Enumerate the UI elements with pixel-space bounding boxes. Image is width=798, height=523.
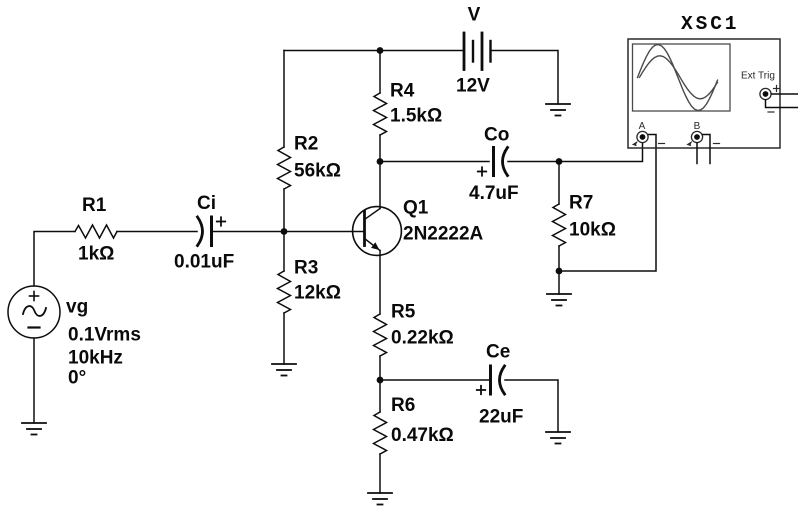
svg-text:V: V: [468, 5, 481, 26]
svg-text:Ext Trig: Ext Trig: [741, 71, 775, 82]
svg-text:R5: R5: [391, 302, 416, 323]
oscilloscope XSC1: [628, 13, 780, 148]
svg-text:0.22kΩ: 0.22kΩ: [391, 328, 454, 349]
node collector junction: [377, 158, 384, 165]
svg-text:0.01uF: 0.01uF: [174, 252, 234, 273]
svg-text:1kΩ: 1kΩ: [78, 244, 114, 265]
capacitor Ce 22uF: [477, 342, 524, 428]
wire scope B stubs: [697, 135, 710, 164]
capacitor Co 4.7uF: [469, 125, 519, 205]
svg-text:1.5kΩ: 1.5kΩ: [390, 106, 442, 127]
node output junction: [556, 158, 563, 165]
wire Ce to ground: [505, 380, 558, 432]
wire R4 column: [379, 51, 381, 94]
wire R3 column: [283, 232, 285, 272]
ground (Ce): [546, 432, 570, 444]
svg-text:12V: 12V: [456, 76, 490, 97]
svg-text:R4: R4: [390, 81, 415, 102]
wire R2 to base node: [283, 189, 285, 232]
wire collector node to Co: [380, 161, 489, 163]
wire emitter node to Ce: [380, 379, 489, 381]
svg-text:22uF: 22uF: [479, 407, 523, 428]
wire R7 top: [558, 162, 560, 205]
svg-text:R6: R6: [391, 395, 415, 416]
battery V: [456, 5, 491, 97]
transistor Q1 2N2222A: [353, 198, 484, 256]
svg-text:0°: 0°: [68, 368, 86, 389]
resistor R6 0.47k: [374, 395, 454, 454]
node base junction: [281, 228, 288, 235]
wire R7 to bottom node: [558, 246, 560, 271]
wire scope A minus return: [559, 135, 656, 272]
wire R1 to Ci: [117, 231, 197, 233]
resistor R3 12k: [278, 258, 341, 314]
svg-text:R7: R7: [569, 193, 593, 214]
source vg: [8, 286, 141, 389]
wire vg top: [34, 232, 75, 287]
wire bottom node to ground: [558, 271, 560, 294]
wire R4 to collector node: [379, 135, 381, 162]
svg-text:2N2222A: 2N2222A: [403, 224, 484, 245]
node rail/R4 junction: [377, 47, 384, 54]
svg-text:12kΩ: 12kΩ: [294, 283, 341, 304]
scope trace small: [640, 56, 718, 99]
wire base: [212, 231, 364, 233]
wire R5 to emitter node: [379, 356, 381, 380]
ground (R7): [547, 294, 571, 306]
wire R3 to ground: [283, 313, 285, 364]
wire Co to output node: [508, 161, 559, 163]
scope terminal Ext Trig: [741, 71, 780, 113]
wire battery to ground: [492, 51, 559, 105]
svg-text:Q1: Q1: [403, 198, 429, 219]
node R7 bottom junction: [556, 268, 563, 275]
resistor R2 56k: [278, 134, 341, 190]
resistor R4 1.5k: [374, 81, 443, 136]
wire collector: [379, 162, 381, 209]
svg-text:0.47kΩ: 0.47kΩ: [391, 425, 454, 446]
svg-text:10kHz: 10kHz: [68, 348, 123, 369]
svg-text:vg: vg: [66, 297, 88, 318]
wire R2 column: [283, 51, 285, 148]
resistor R1 1k: [75, 195, 117, 265]
resistor R7 10k: [553, 193, 616, 247]
wire ext trig plus: [772, 93, 798, 95]
svg-text:Ci: Ci: [197, 193, 216, 214]
capacitor Ci 0.01uF: [174, 193, 234, 273]
svg-text:4.7uF: 4.7uF: [469, 183, 519, 204]
ground (R6): [368, 493, 392, 505]
wire top rail: [284, 50, 463, 52]
ground (vg): [22, 423, 46, 435]
scope trace large: [638, 45, 718, 111]
wire R6 to ground: [379, 454, 381, 493]
node emitter junction: [377, 377, 384, 384]
wire emitter: [379, 251, 381, 315]
svg-text:A: A: [639, 121, 646, 132]
wire vg to ground: [33, 338, 35, 423]
svg-text:B: B: [694, 121, 701, 132]
svg-text:10kΩ: 10kΩ: [569, 220, 616, 241]
wire R6 top: [379, 380, 381, 412]
scope terminal A: [633, 121, 665, 146]
svg-text:R3: R3: [294, 258, 318, 279]
svg-text:XSC1: XSC1: [681, 13, 739, 35]
svg-text:0.1Vrms: 0.1Vrms: [68, 325, 141, 346]
scope terminal B: [688, 121, 720, 146]
svg-text:R2: R2: [294, 134, 318, 155]
ground (battery): [546, 104, 570, 116]
svg-text:Co: Co: [484, 125, 509, 146]
svg-text:56kΩ: 56kΩ: [294, 161, 341, 182]
ground (R3): [272, 364, 296, 376]
svg-text:R1: R1: [82, 195, 107, 216]
wire output node to scope A: [559, 143, 643, 162]
wire ext trig minus: [766, 100, 798, 108]
resistor R5 0.22k: [374, 302, 454, 357]
svg-text:Ce: Ce: [486, 342, 510, 363]
